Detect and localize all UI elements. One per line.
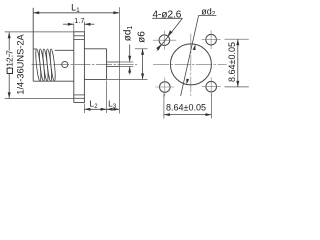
flange bottom mounting hole (side) <box>74 94 85 96</box>
central circle od2 <box>170 44 211 85</box>
dimension square 12.7 (flange size) <box>5 32 74 99</box>
vertical centerline <box>190 34 192 97</box>
dimension 1.7 (flange thickness) <box>63 16 95 32</box>
thread 1/4-36UNS-2A coil <box>33 49 56 81</box>
label od2 with leader <box>181 6 217 96</box>
flange top mounting hole (side) <box>74 35 85 37</box>
wire centerline of side view <box>32 64 138 66</box>
barrel behind thread <box>55 49 74 51</box>
hole in barrel <box>62 61 68 67</box>
flange side view <box>74 32 85 103</box>
dimension 8.64 +-0.05 horizontal (bottom) <box>164 94 212 119</box>
mounting hole top-left <box>153 31 176 50</box>
dimension od1 (pin dia) <box>119 26 134 75</box>
dimension o6 (body dia) <box>107 31 148 80</box>
mounting hole bottom-right <box>202 77 221 96</box>
body (o6 barrel) right of flange <box>84 48 106 50</box>
label 4-o2.6 with leader <box>152 10 182 51</box>
pin tip extension line (L1/L3) <box>118 7 120 113</box>
svg-text:8.64±0.05: 8.64±0.05 <box>227 42 237 82</box>
svg-text:4-ø2.6: 4-ø2.6 <box>152 10 181 21</box>
dimension 8.64 +-0.05 vertical (right) <box>225 39 249 87</box>
mounting hole bottom-left <box>155 78 174 97</box>
thread left face / L1 extension line <box>32 8 34 81</box>
dimension L1 <box>33 2 119 14</box>
horizontal centerline <box>153 63 227 65</box>
svg-text:ø6: ø6 <box>136 31 147 43</box>
svg-text:8.64±0.05: 8.64±0.05 <box>166 102 206 112</box>
pin <box>107 61 120 63</box>
svg-text:1.7: 1.7 <box>74 16 84 25</box>
mounting hole top-right <box>202 30 221 49</box>
svg-text:12.7: 12.7 <box>5 50 15 67</box>
svg-text:1/4-36UNS-2A: 1/4-36UNS-2A <box>15 33 25 94</box>
dimensions L2 L3 <box>84 81 119 114</box>
